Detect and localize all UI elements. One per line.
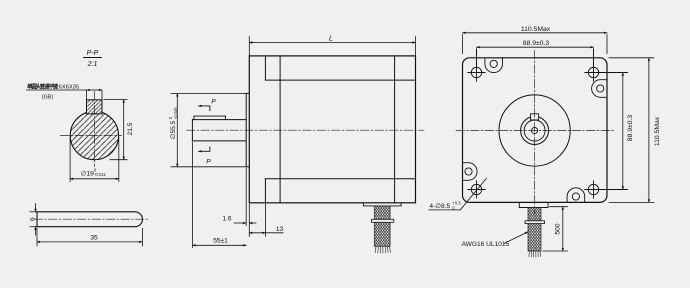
corner screw boss left xyxy=(463,163,478,181)
loose wire strands xyxy=(529,251,541,257)
dimension 500 (wire length) xyxy=(543,207,568,251)
mounting hole top-right xyxy=(585,49,628,81)
keyway slot xyxy=(531,113,539,120)
stator stack upper line xyxy=(265,79,415,81)
dimension 88.9±0.3 right (vertical) xyxy=(622,73,624,190)
svg-text:(GB): (GB) xyxy=(42,95,54,101)
dimension 35 (key length) xyxy=(37,229,142,246)
svg-text:AWG16 UL1015: AWG16 UL1015 xyxy=(462,241,510,248)
label 4-dia8.5 +0.3/0 with leader xyxy=(429,178,487,210)
svg-text:L: L xyxy=(329,36,333,43)
svg-text:-0.012: -0.012 xyxy=(94,172,107,177)
wire bundle (front view) xyxy=(525,208,545,258)
pilot boss circle xyxy=(499,95,570,166)
svg-text:P: P xyxy=(211,99,216,106)
shaft xyxy=(192,120,246,141)
key side view centerline xyxy=(34,218,150,220)
cable tie band xyxy=(371,219,393,222)
svg-text:110.5Max: 110.5Max xyxy=(654,116,661,146)
shaft centerline xyxy=(187,129,425,131)
circle centerlines xyxy=(61,92,122,167)
face centerlines xyxy=(456,51,614,214)
motor body outline xyxy=(249,56,415,203)
section arrow P lower xyxy=(199,147,210,152)
svg-text:2:1: 2:1 xyxy=(87,61,98,68)
key side view (rounded-end bar 35x6) xyxy=(37,212,142,227)
label AWG16 UL1015 with leader xyxy=(462,232,529,248)
svg-text:6: 6 xyxy=(30,217,37,221)
dimension 55±1 xyxy=(192,143,246,248)
mounting hole top-left xyxy=(468,49,485,81)
svg-text:55±1: 55±1 xyxy=(213,238,228,245)
stator stack lower line xyxy=(265,178,415,180)
shaft section circle (hatched) xyxy=(70,111,118,159)
section title P-P 2:1 xyxy=(84,50,102,68)
mounting hole bottom-left xyxy=(468,181,485,198)
dimension 110.5Max right (vertical) xyxy=(609,58,654,203)
svg-text:35: 35 xyxy=(90,235,98,242)
mounting hole bottom-right xyxy=(585,181,628,198)
svg-text:1.6: 1.6 xyxy=(222,216,231,223)
dimension dia 55.5 0/-0.046 xyxy=(171,93,246,166)
svg-text:110.5Max: 110.5Max xyxy=(521,26,551,33)
dimension 6 (key height) xyxy=(30,204,39,236)
wire bundle (side view) xyxy=(371,206,393,253)
key spec label (round-head flat key 6X6X35) xyxy=(27,83,79,101)
shaft circle xyxy=(521,117,549,145)
svg-text:88.9±0.3: 88.9±0.3 xyxy=(627,115,634,142)
svg-text:21.5: 21.5 xyxy=(127,122,134,135)
dimension L xyxy=(249,37,415,56)
wire exit bracket (front view) xyxy=(519,202,548,207)
front face square xyxy=(463,58,608,203)
dimension 13 xyxy=(249,204,283,237)
key section (hatched rectangle in keyway) xyxy=(87,100,103,114)
svg-text:P: P xyxy=(206,159,211,166)
loose wire strands xyxy=(375,246,390,253)
svg-text:4-∅8.5: 4-∅8.5 xyxy=(429,203,450,210)
dimension dia 19 0/-0.012 xyxy=(70,138,119,182)
wire exit bracket (side view) xyxy=(363,203,401,206)
shaft center mark circle xyxy=(532,127,538,133)
corner screw boss top xyxy=(485,58,503,73)
step verticals at front endbell xyxy=(264,56,266,80)
svg-text:13: 13 xyxy=(276,226,284,233)
svg-text:∅19: ∅19 xyxy=(81,170,94,177)
rear endbell boundary xyxy=(394,56,396,203)
corner screw boss right xyxy=(592,80,607,98)
shaft bore circle xyxy=(524,120,545,141)
svg-text:88.9±0.3: 88.9±0.3 xyxy=(523,40,550,47)
section arrow P upper xyxy=(199,106,210,111)
dimension 21.5 xyxy=(104,100,127,160)
corner screw boss bottom xyxy=(567,188,585,203)
svg-text:∅55.5: ∅55.5 xyxy=(170,120,177,139)
front flange plate xyxy=(246,93,249,166)
svg-text:P-P: P-P xyxy=(87,50,99,57)
leader underline + key width dimension xyxy=(27,90,103,100)
dimension 1.6 (flange thickness) xyxy=(234,169,256,237)
front endbell boundary xyxy=(279,56,281,203)
dimension 110.5Max top xyxy=(463,33,608,54)
key on shaft xyxy=(194,116,226,120)
svg-text:-0.046: -0.046 xyxy=(173,107,178,120)
cable tie band xyxy=(525,221,545,224)
svg-text:500: 500 xyxy=(555,223,562,234)
svg-text:单圆头普通平键: 单圆头普通平键 xyxy=(27,83,59,91)
dimension 88.9±0.3 top xyxy=(477,47,594,66)
